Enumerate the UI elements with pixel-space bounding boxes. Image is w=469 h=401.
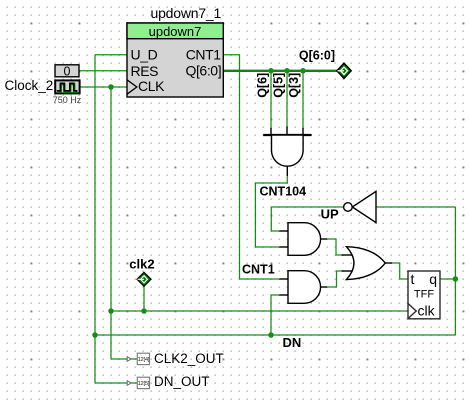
svg-text:Q[6:0]: Q[6:0]	[185, 63, 221, 79]
junction DN branch	[268, 332, 274, 338]
output pin DN_OUT	[127, 374, 209, 389]
wire AND1 output to OR input	[327, 239, 342, 255]
wire AND2 output to OR input	[327, 271, 342, 287]
tunnel clk2 diamond	[137, 272, 151, 286]
wire RES net: constant 0 to RES pin	[80, 70, 128, 72]
svg-text:0: 0	[64, 65, 71, 79]
pin CLK wedge	[127, 80, 137, 94]
junction clock/B	[108, 84, 114, 90]
svg-text:Q[5]: Q[5]	[271, 73, 285, 98]
wire bus tap Q5	[286, 72, 288, 127]
wire DN net bottom horizontal	[95, 334, 455, 336]
svg-text:t: t	[411, 271, 415, 287]
wire CLK net: vertical line B	[110, 87, 112, 359]
svg-text:updown7_1: updown7_1	[151, 5, 222, 21]
wire DN net to DN_OUT pin	[95, 382, 138, 384]
wire CLK net: clock to CLK pin	[80, 86, 128, 88]
svg-text:Clock_2: Clock_2	[5, 78, 54, 93]
svg-text:CLK2_OUT: CLK2_OUT	[154, 351, 224, 366]
svg-text:DN_OUT: DN_OUT	[154, 374, 210, 389]
svg-text:CNT1: CNT1	[242, 263, 275, 277]
svg-text:updown7: updown7	[149, 24, 202, 39]
junction q output	[453, 276, 459, 282]
wire DN net right vertical	[454, 207, 456, 335]
junction clk2 tunnel	[141, 308, 147, 314]
svg-text:U_D: U_D	[131, 47, 158, 63]
component updown7 U_box	[127, 23, 223, 97]
wire CNT1 net	[223, 55, 280, 279]
wire DN net branch up to AND2 input	[271, 295, 280, 335]
junction DN line A	[92, 332, 98, 338]
svg-text:12[4]: 12[4]	[137, 357, 149, 363]
svg-text:CNT1: CNT1	[186, 47, 222, 63]
output pin CLK2_OUT	[127, 351, 224, 366]
svg-text:Q[3]: Q[3]	[287, 73, 301, 98]
bus Q[6:0]	[223, 70, 337, 72]
svg-text:RES: RES	[131, 63, 159, 79]
svg-text:DN: DN	[283, 335, 302, 350]
svg-text:q: q	[429, 271, 437, 287]
junction clk line B	[108, 308, 114, 314]
wire CLK net: horizontal to TFF clk	[111, 310, 408, 312]
wire CNT104 net: gate output to AND1 input	[255, 176, 287, 247]
junction bus Q5	[284, 68, 290, 74]
svg-text:UP: UP	[321, 206, 339, 221]
wire inverter input	[376, 206, 455, 208]
svg-text:clk2: clk2	[129, 256, 154, 271]
and gate AND2 (bottom)	[280, 271, 328, 304]
or gate OR1	[342, 247, 393, 280]
svg-text:TFF: TFF	[414, 289, 434, 301]
flip-flop TFF	[408, 271, 440, 319]
svg-text:12[5]: 12[5]	[137, 381, 149, 387]
junction bus Q6	[268, 68, 274, 74]
wire DN net: vertical A to U_D pin	[95, 54, 127, 56]
and gate AND1 (top)	[280, 223, 328, 256]
junction bus Q3	[300, 68, 306, 74]
svg-text:Q[6:0]: Q[6:0]	[299, 49, 335, 63]
wire bus tap Q6	[270, 72, 272, 129]
svg-text:Q[6]: Q[6]	[256, 73, 270, 98]
and gate CNT104 (3-input, pointing down)	[263, 127, 311, 177]
clock Clock_2	[55, 80, 79, 93]
wire UP net: inverter output to AND1 input	[271, 207, 343, 231]
wire OR output to TFF t	[392, 263, 408, 279]
constant 0 box	[55, 65, 79, 79]
tunnel Q[6:0] diamond	[337, 63, 351, 78]
wire DN net: vertical line A	[94, 55, 96, 383]
svg-text:clk: clk	[418, 303, 436, 319]
wire TFF q output	[440, 278, 455, 280]
svg-text:CNT104: CNT104	[260, 184, 307, 198]
wire clk2 tunnel drop	[143, 286, 145, 311]
svg-text:750 Hz: 750 Hz	[53, 95, 82, 105]
svg-text:CLK: CLK	[138, 78, 165, 94]
wire CLK net to CLK2_OUT pin	[111, 358, 138, 360]
inverter UP (pointing left)	[344, 191, 376, 222]
wire bus tap Q3	[302, 72, 304, 129]
